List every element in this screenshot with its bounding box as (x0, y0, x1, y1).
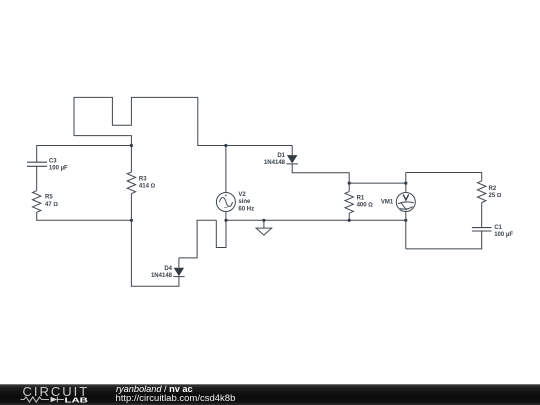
junction V2 bottom (224, 219, 227, 222)
wire C1 bottom to loop bottom (406, 231, 482, 249)
wire VM1 bottom stem (405, 212, 407, 249)
ground (256, 220, 272, 235)
voltage source V2 (216, 193, 235, 212)
wire top loop from left branch to D1 anode with jog (74, 97, 292, 145)
label VM1 V letter (403, 194, 409, 200)
capacitor C1 (472, 228, 492, 231)
svg-text:C1: C1 (494, 225, 502, 231)
wire VM1 top stem (405, 173, 407, 193)
wire right loop top (406, 173, 482, 181)
svg-text:sine: sine (238, 199, 251, 205)
svg-text:1N4148: 1N4148 (151, 273, 173, 279)
wire R2 to C1 (481, 203, 483, 228)
wire R1 bottom stem (348, 213, 350, 220)
svg-text:R3: R3 (139, 176, 147, 182)
resistor R2 (478, 181, 486, 203)
voltmeter VM1 (396, 193, 415, 212)
svg-text:R2: R2 (489, 186, 497, 192)
svg-text:D1: D1 (277, 153, 285, 159)
wire D1 anode stem (291, 146, 293, 156)
svg-text:http://circuitlab.com/csd4k8b: http://circuitlab.com/csd4k8b (116, 393, 236, 404)
junction ground (262, 219, 265, 222)
wire detour under V2 (216, 220, 226, 247)
footer bar (0, 384, 540, 405)
junction VM1 top (404, 182, 407, 185)
junction R1 bottom (348, 219, 351, 222)
wire D1 cathode to R1 top (292, 164, 349, 192)
diode D1 (286, 155, 298, 164)
junction R1 top (348, 182, 351, 185)
wire D4 detour to V2 minus (179, 220, 216, 258)
capacitor C3 (27, 162, 47, 166)
svg-text:100 µF: 100 µF (494, 232, 513, 238)
wire R3 top stem (130, 146, 132, 173)
svg-text:R5: R5 (45, 195, 53, 201)
svg-text:V2: V2 (238, 192, 246, 198)
svg-text:R1: R1 (357, 195, 365, 201)
wire R3 bottom stem (130, 194, 132, 221)
diode D4 (173, 268, 184, 277)
svg-text:25 Ω: 25 Ω (489, 193, 502, 199)
junction V2 top (224, 144, 227, 147)
svg-text:100 µF: 100 µF (49, 165, 68, 171)
resistor R3 (127, 172, 135, 194)
wire C3 to R5 (36, 167, 38, 191)
wire R5 bottom to rail (37, 212, 132, 220)
wire V2 top stem (225, 146, 227, 193)
svg-text:400 Ω: 400 Ω (357, 203, 374, 209)
wire R1 junction to VM1 top (349, 182, 406, 184)
junction R3 bottom (130, 219, 133, 222)
svg-text:60 Hz: 60 Hz (238, 206, 254, 212)
svg-text:LAB: LAB (65, 396, 88, 405)
wire R3 junction down to D4 cathode (131, 220, 179, 286)
junction VM1 bottom (404, 219, 407, 222)
svg-text:1N4148: 1N4148 (264, 160, 286, 166)
wire node A horizontal to C3 top (37, 146, 132, 163)
resistor R1 (345, 192, 353, 214)
wire bottom rail V2 to VM1 (226, 219, 406, 221)
resistor R5 (33, 191, 41, 213)
svg-text:414 Ω: 414 Ω (139, 184, 156, 190)
wire V2 bottom stem (225, 212, 227, 221)
junction node A (130, 144, 133, 147)
logo diode symbol (51, 397, 58, 403)
wire D4 anode up (178, 258, 180, 268)
logo resistor symbol (21, 397, 50, 402)
svg-text:C3: C3 (49, 158, 57, 164)
svg-text:VM1: VM1 (381, 200, 394, 206)
svg-text:D4: D4 (164, 266, 172, 272)
svg-text:47 Ω: 47 Ω (45, 202, 58, 208)
